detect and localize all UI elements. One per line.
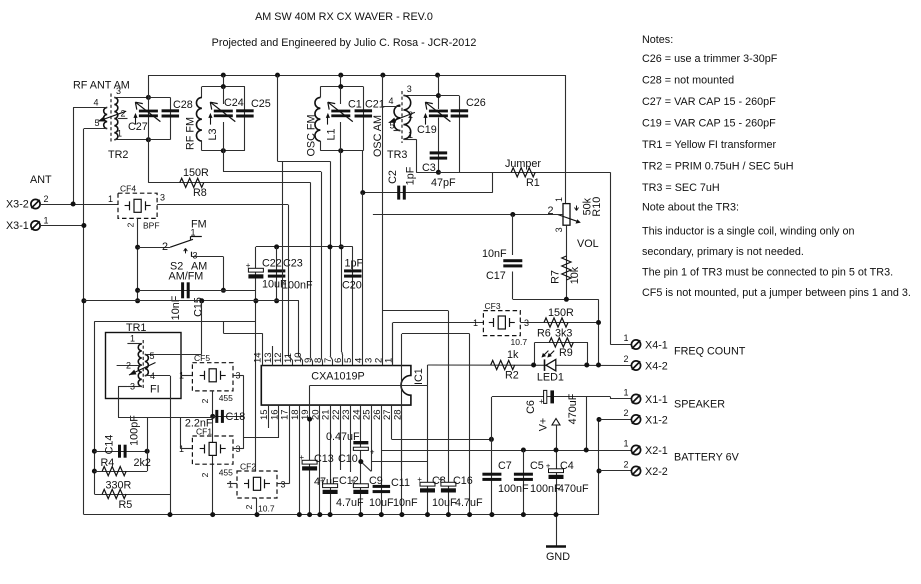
svg-text:2: 2	[624, 354, 629, 364]
svg-text:7: 7	[323, 358, 334, 363]
svg-text:150R: 150R	[548, 307, 574, 319]
svg-text:SPEAKER: SPEAKER	[674, 399, 725, 411]
svg-text:1pF: 1pF	[345, 258, 364, 270]
svg-text:3: 3	[160, 193, 165, 203]
svg-text:IC1: IC1	[413, 368, 425, 385]
svg-text:C11: C11	[391, 477, 410, 489]
svg-text:CF5: CF5	[194, 353, 210, 363]
svg-text:100pF: 100pF	[129, 415, 141, 446]
svg-text:BPF: BPF	[143, 220, 160, 230]
svg-text:C19: C19	[417, 124, 437, 136]
svg-text:5: 5	[94, 118, 99, 128]
svg-text:FREQ COUNT: FREQ COUNT	[674, 346, 746, 358]
svg-text:150R: 150R	[183, 167, 209, 179]
svg-text:ANT: ANT	[30, 174, 52, 186]
svg-text:+: +	[320, 477, 325, 486]
svg-text:C21: C21	[365, 99, 385, 111]
svg-text:1: 1	[108, 194, 113, 204]
svg-text:C19 = VAR CAP 15 - 260pF: C19 = VAR CAP 15 - 260pF	[642, 118, 776, 130]
svg-text:2: 2	[121, 109, 126, 119]
svg-text:C10: C10	[338, 453, 358, 465]
svg-text:4.7uF: 4.7uF	[455, 497, 483, 509]
svg-text:2: 2	[126, 222, 136, 227]
svg-text:C23: C23	[283, 258, 303, 270]
svg-text:C14: C14	[104, 435, 116, 455]
svg-text:C2: C2	[387, 170, 399, 184]
svg-text:X3-1: X3-1	[6, 220, 29, 232]
svg-text:455: 455	[219, 468, 233, 478]
svg-text:1: 1	[117, 129, 122, 139]
svg-text:C24: C24	[224, 97, 244, 109]
svg-text:R5: R5	[119, 499, 133, 511]
svg-text:RF ANT AM: RF ANT AM	[73, 80, 130, 92]
svg-text:10nF: 10nF	[170, 295, 182, 320]
svg-text:5: 5	[343, 358, 354, 363]
svg-text:R4: R4	[101, 457, 115, 469]
svg-text:2: 2	[162, 241, 168, 253]
svg-text:C6: C6	[525, 400, 537, 414]
svg-text:10nF: 10nF	[393, 497, 418, 509]
svg-text:2: 2	[624, 408, 629, 418]
svg-text:2: 2	[44, 194, 49, 204]
svg-text:10uF: 10uF	[432, 497, 457, 509]
svg-text:C17: C17	[486, 270, 506, 282]
svg-text:2: 2	[373, 358, 384, 363]
svg-text:1: 1	[473, 318, 478, 328]
svg-text:4: 4	[93, 98, 98, 108]
svg-text:C3: C3	[422, 162, 436, 174]
svg-text:C1: C1	[348, 99, 362, 111]
svg-text:GND: GND	[546, 551, 570, 563]
svg-text:14: 14	[253, 352, 264, 363]
svg-text:R1: R1	[526, 177, 540, 189]
svg-text:CF3: CF3	[485, 301, 501, 311]
svg-text:L1: L1	[326, 128, 338, 140]
svg-text:455: 455	[219, 393, 233, 403]
svg-text:C18: C18	[226, 411, 246, 423]
svg-text:+: +	[370, 448, 375, 457]
svg-text:1: 1	[554, 197, 564, 202]
svg-text:CXA1019P: CXA1019P	[311, 371, 364, 383]
svg-text:+: +	[438, 475, 443, 484]
svg-text:C26: C26	[466, 97, 486, 109]
svg-text:X3-2: X3-2	[6, 199, 29, 211]
svg-text:6: 6	[333, 358, 344, 363]
svg-text:TR1: TR1	[126, 322, 146, 334]
svg-text:C28 = not mounted: C28 = not mounted	[642, 75, 734, 87]
svg-text:11: 11	[283, 353, 294, 363]
svg-text:+: +	[546, 462, 551, 471]
svg-text:3k3: 3k3	[555, 328, 572, 340]
svg-text:C28: C28	[173, 99, 193, 111]
svg-text:470uF: 470uF	[567, 393, 579, 424]
svg-text:C22: C22	[262, 258, 282, 270]
svg-text:C5: C5	[530, 460, 544, 472]
svg-text:4: 4	[353, 358, 364, 363]
svg-text:X4-2: X4-2	[645, 361, 668, 373]
svg-text:10: 10	[293, 352, 304, 363]
svg-text:Jumper: Jumper	[505, 158, 541, 170]
svg-text:The pin 1 of TR3 must be conne: The pin 1 of TR3 must be connected to pi…	[642, 267, 893, 279]
svg-text:+: +	[246, 261, 251, 270]
svg-text:2: 2	[244, 504, 254, 509]
svg-text:TR3 = SEC 7uH: TR3 = SEC 7uH	[642, 182, 720, 194]
svg-text:OSC FM: OSC FM	[306, 115, 318, 157]
svg-text:10k: 10k	[569, 266, 581, 284]
svg-text:X1-1: X1-1	[645, 394, 668, 406]
svg-text:3: 3	[281, 480, 286, 490]
svg-text:TR2: TR2	[108, 149, 128, 161]
svg-text:R6: R6	[537, 328, 551, 340]
svg-text:CF2: CF2	[240, 462, 256, 472]
svg-text:Projected and Engineered by Ju: Projected and Engineered by Julio C. Ros…	[212, 37, 477, 49]
svg-text:1: 1	[228, 480, 233, 490]
svg-text:13: 13	[263, 352, 274, 363]
svg-text:2: 2	[624, 460, 629, 470]
svg-text:2: 2	[547, 205, 553, 217]
svg-text:1: 1	[408, 130, 413, 140]
svg-text:FI: FI	[150, 384, 160, 396]
svg-text:1: 1	[624, 388, 629, 398]
svg-text:C7: C7	[498, 460, 512, 472]
svg-text:X4-1: X4-1	[645, 340, 668, 352]
svg-text:0.47uF: 0.47uF	[326, 431, 360, 443]
svg-text:+: +	[539, 397, 544, 406]
svg-text:secondary, primary is not need: secondary, primary is not needed.	[642, 246, 804, 258]
svg-text:RF FM: RF FM	[185, 117, 197, 150]
svg-text:C27 = VAR CAP 15 - 260pF: C27 = VAR CAP 15 - 260pF	[642, 96, 776, 108]
svg-text:100nF: 100nF	[282, 280, 313, 292]
svg-text:2: 2	[408, 110, 413, 120]
svg-text:CF1: CF1	[196, 427, 212, 437]
svg-text:LED1: LED1	[537, 372, 564, 384]
svg-text:10nF: 10nF	[482, 248, 507, 260]
svg-text:1pF: 1pF	[405, 166, 417, 185]
svg-text:BATTERY 6V: BATTERY 6V	[674, 452, 740, 464]
svg-text:C4: C4	[560, 460, 574, 472]
svg-text:2: 2	[126, 361, 131, 371]
svg-text:1: 1	[624, 333, 629, 343]
svg-text:2: 2	[200, 398, 210, 403]
svg-text:C13: C13	[314, 453, 334, 465]
svg-text:TR2 = PRIM 0.75uH / SEC 5uH: TR2 = PRIM 0.75uH / SEC 5uH	[642, 161, 794, 173]
svg-text:1: 1	[624, 439, 629, 449]
svg-text:C26 = use a trimmer 3-30pF: C26 = use a trimmer 3-30pF	[642, 53, 778, 65]
svg-text:3: 3	[363, 358, 374, 363]
svg-text:12: 12	[273, 352, 284, 363]
svg-text:2k2: 2k2	[134, 457, 151, 469]
svg-text:R7: R7	[550, 270, 562, 284]
svg-text:3: 3	[554, 227, 564, 232]
svg-text:X2-2: X2-2	[645, 466, 668, 478]
svg-text:Notes:: Notes:	[642, 34, 673, 46]
svg-text:X2-1: X2-1	[645, 445, 668, 457]
svg-text:TR3: TR3	[387, 149, 407, 161]
svg-text:5: 5	[389, 121, 394, 131]
svg-text:3: 3	[193, 251, 198, 261]
svg-text:10.7: 10.7	[258, 504, 275, 514]
svg-text:9: 9	[303, 358, 314, 363]
svg-text:TR1 = Yellow FI transformer: TR1 = Yellow FI transformer	[642, 139, 777, 151]
svg-text:OSC AM: OSC AM	[372, 115, 384, 157]
svg-text:3: 3	[524, 318, 529, 328]
svg-text:This inductor is a single coil: This inductor is a single coil, winding …	[642, 226, 854, 238]
svg-text:1: 1	[130, 334, 135, 344]
svg-text:CF4: CF4	[120, 183, 136, 193]
svg-text:3: 3	[130, 382, 135, 392]
svg-text:R10: R10	[591, 197, 603, 217]
svg-text:5: 5	[150, 351, 155, 361]
svg-text:+: +	[417, 475, 422, 484]
svg-text:+: +	[299, 453, 304, 462]
svg-text:1: 1	[44, 216, 49, 226]
svg-text:C25: C25	[251, 98, 271, 110]
svg-text:V+: V+	[538, 418, 550, 432]
svg-text:X1-2: X1-2	[645, 415, 668, 427]
svg-text:Note about the TR3:: Note about the TR3:	[642, 202, 739, 214]
svg-text:100nF: 100nF	[498, 483, 529, 495]
svg-text:C12: C12	[339, 475, 359, 487]
svg-text:3: 3	[407, 84, 412, 94]
svg-text:8: 8	[313, 358, 324, 363]
svg-text:C27: C27	[128, 121, 148, 133]
svg-text:CF5 is not mounted, put a jump: CF5 is not mounted, put a jumper between…	[642, 287, 911, 299]
svg-text:AM/FM: AM/FM	[169, 271, 204, 283]
svg-text:2: 2	[200, 472, 210, 477]
svg-text:R9: R9	[559, 347, 573, 359]
svg-text:AM SW 40M RX CX WAVER - REV.0: AM SW 40M RX CX WAVER - REV.0	[255, 11, 433, 23]
svg-text:47pF: 47pF	[431, 177, 456, 189]
svg-text:C20: C20	[342, 280, 362, 292]
svg-text:4.7uF: 4.7uF	[336, 497, 364, 509]
svg-text:100nF: 100nF	[530, 483, 561, 495]
svg-text:VOL: VOL	[577, 238, 599, 250]
svg-text:10uF: 10uF	[369, 497, 394, 509]
svg-text:R8: R8	[193, 187, 207, 199]
svg-text:L3: L3	[207, 128, 219, 140]
svg-text:4: 4	[150, 371, 155, 381]
svg-text:10.7: 10.7	[511, 337, 528, 347]
svg-text:R2: R2	[505, 370, 519, 382]
svg-text:C16: C16	[453, 475, 473, 487]
svg-text:330R: 330R	[106, 480, 132, 492]
svg-text:1k: 1k	[507, 349, 519, 361]
svg-text:3: 3	[116, 86, 121, 96]
svg-text:4: 4	[388, 96, 393, 106]
svg-text:470uF: 470uF	[558, 483, 589, 495]
